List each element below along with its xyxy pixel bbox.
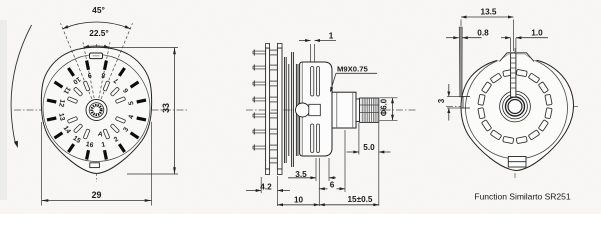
dimension 4.2 line [246, 190, 261, 192]
housing slots [311, 67, 320, 153]
svg-text:Function Similarto SR251: Function Similarto SR251 [474, 192, 571, 202]
front view switch body outline [41, 47, 151, 173]
shaft with knurl [360, 98, 379, 122]
dimension 5.0 line [347, 151, 359, 153]
front view centerline vertical [96, 44, 98, 182]
dimension 45 deg arc [63, 22, 130, 29]
housing inner seam [301, 62, 303, 156]
dimension 13.5 [460, 20, 462, 27]
wafer bottom feet [266, 169, 270, 175]
dimension 3 (rear left) [447, 96, 462, 98]
svg-text:M9X0.75: M9X0.75 [337, 65, 368, 74]
terminal lug bars (16) [47, 61, 146, 160]
front view wafer circle [43, 55, 150, 162]
angle construction dashed lines [61, 23, 92, 99]
svg-text:45°: 45° [92, 5, 105, 15]
rear view centerline horizontal [446, 106, 580, 108]
dimension dia6.0 line [392, 98, 394, 121]
rotor slot holes ring (12) [67, 81, 125, 139]
side view terminal pins [253, 49, 266, 150]
top mesa tab [500, 53, 535, 62]
rear center circles [500, 91, 531, 122]
svg-text:3.5: 3.5 [295, 170, 307, 179]
wafer contact clips [270, 50, 278, 163]
front view center shaft circles [86, 100, 107, 121]
dimension 3.5 extension lines [315, 158, 317, 181]
scan edge shading left [0, 20, 7, 200]
bushing step ring [356, 99, 360, 122]
rear slot holes ring (16) [478, 69, 552, 143]
svg-text:Φ6.0: Φ6.0 [380, 98, 389, 116]
dimension 3.5 line [288, 177, 316, 179]
svg-text:12: 12 [57, 99, 65, 108]
dimension 1.0 [510, 38, 512, 52]
rotation direction arrow (left arc) [11, 25, 31, 144]
side view housing cup [300, 62, 332, 156]
svg-text:1: 1 [329, 32, 334, 41]
svg-text:33: 33 [161, 103, 171, 113]
rear view inner ring circle [466, 57, 568, 159]
key slot ladder [511, 53, 516, 97]
svg-text:5.0: 5.0 [363, 143, 375, 152]
dimension 6 line [319, 188, 327, 190]
side view wafer 1 [266, 48, 270, 169]
svg-text:16: 16 [85, 141, 94, 149]
rotor spacer plates [285, 52, 299, 167]
dimension 15+-0.5 line [319, 204, 379, 206]
dimension dia6.0 extension lines [380, 97, 398, 99]
bushing [332, 92, 356, 128]
rear view centerline vertical [514, 48, 516, 178]
dimension 1 line [315, 40, 337, 42]
left stop lug (hatched bar) [459, 27, 462, 97]
rear bottom tab [508, 157, 526, 168]
terminal numbers 1-16 [57, 71, 135, 149]
dimension 4.2 extension lines [260, 177, 262, 193]
svg-text:1.0: 1.0 [531, 29, 543, 38]
bottom tab [90, 163, 100, 168]
dimension 10 line [278, 204, 320, 206]
dimension 33 extension lines [108, 47, 178, 49]
dimension 6 extension lines [318, 158, 320, 206]
svg-text:0.8: 0.8 [477, 29, 489, 38]
dimension 33 line [174, 48, 176, 175]
svg-text:29: 29 [92, 190, 102, 200]
left notch [462, 96, 471, 98]
svg-text:6: 6 [330, 181, 335, 190]
dimension 5.0 extension lines [358, 123, 360, 155]
front view centerline horizontal [14, 109, 189, 111]
hub boss rect [309, 104, 321, 115]
dimension 0.8 [446, 37, 459, 39]
svg-text:13.5: 13.5 [481, 8, 497, 17]
svg-text:3: 3 [437, 98, 446, 103]
svg-text:15±0.5: 15±0.5 [348, 195, 373, 204]
side view wafer 2 [277, 48, 282, 169]
dimension 29 line [42, 200, 152, 202]
top index tab [90, 53, 103, 59]
svg-text:13: 13 [57, 113, 65, 122]
svg-text:10: 10 [294, 196, 304, 205]
dimension 1 extension lines [310, 44, 312, 62]
dimension 22.5 deg arc [84, 46, 109, 47]
side view centerline [246, 109, 416, 111]
dimension 29 extension lines [41, 122, 43, 206]
svg-text:22.5°: 22.5° [89, 28, 108, 38]
wafer top tabs [266, 44, 270, 49]
hub circle [296, 103, 310, 117]
svg-text:4.2: 4.2 [260, 182, 272, 191]
